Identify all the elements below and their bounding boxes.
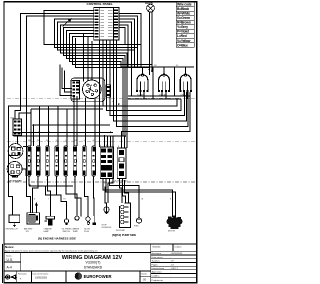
battery starter arrow — [35, 202, 38, 213]
wire F3 bottom — [47, 176, 50, 216]
wire cp pin7 bus5 — [64, 28, 126, 136]
wire cp bottom d2 — [103, 40, 177, 106]
svg-text:EUROPOWER: EUROPOWER — [84, 274, 112, 279]
svg-text:Y=Grey: Y=Grey — [177, 25, 188, 29]
relay K1 — [136, 67, 148, 97]
wire cp pin6 bus4 — [61, 25, 128, 148]
key switch connector bar — [72, 81, 80, 100]
wire K2 leg a — [161, 92, 163, 96]
fuse F3 — [46, 146, 50, 176]
svg-text:[N][P.E] PUMP SIDE: [N][P.E] PUMP SIDE — [112, 233, 136, 237]
wire F1 bottom — [29, 176, 30, 185]
wire left ground run — [8, 106, 103, 215]
key arrow symbol — [63, 19, 72, 27]
wire cp right r1 — [119, 13, 141, 67]
EUROPOWER logo — [75, 272, 112, 279]
wire cp right r3 — [119, 19, 134, 67]
wire pump feed c — [125, 180, 129, 203]
svg-text:SWITCH: SWITCH — [63, 231, 71, 233]
svg-text:GW: GW — [46, 140, 49, 142]
wire lower bus A — [29, 185, 73, 187]
svg-text:TEMP.: TEMP. — [73, 231, 79, 233]
fuse F8 — [92, 146, 96, 176]
wire glowstrip bottom 1 — [120, 179, 123, 203]
wire fusebox top feed2 — [104, 136, 106, 147]
svg-text:R=Brown: R=Brown — [177, 21, 191, 25]
svg-text:O=Blue: O=Blue — [177, 43, 188, 47]
svg-text:Apply only genuine spare parts: Apply only genuine spare parts and acces… — [5, 250, 98, 253]
wire fuse feed f9 — [94, 98, 96, 147]
svg-text:: 20/05/2003: : 20/05/2003 — [170, 253, 183, 255]
wire cp pin1 to bus1 — [44, 10, 141, 44]
svg-text:W=White: W=White — [177, 12, 190, 16]
wire F7 bottom — [84, 176, 88, 217]
wire CN1 top — [19, 113, 31, 119]
wire interrelay stub a — [152, 67, 154, 99]
svg-text:Wire code: Wire code — [177, 3, 192, 7]
svg-text:Revisione: Revisione — [152, 253, 162, 255]
wire lower bus A drop — [45, 186, 61, 195]
svg-text:U.S.: U.S. — [7, 258, 14, 262]
svg-text:Notes:: Notes: — [5, 245, 14, 249]
socket SK2 — [7, 162, 22, 178]
svg-text:SOLENOID: SOLENOID — [102, 227, 112, 229]
controller box — [6, 215, 20, 231]
wire horn drop right — [151, 12, 153, 65]
fuse F4 — [55, 146, 59, 176]
junction dots — [17, 69, 153, 137]
svg-text:INJ.PUMP: INJ.PUMP — [116, 230, 126, 232]
wire cp pin2 long left — [15, 13, 94, 119]
wire fusebox bottom 2 — [106, 179, 175, 217]
wire fuse feed f5 — [66, 109, 68, 146]
svg-text:LAMP: LAMP — [44, 230, 50, 233]
wire K1 leg a — [140, 92, 142, 96]
zone separator dash-dot lines — [7, 98, 196, 182]
wire fusebox top feed3 — [107, 136, 109, 147]
svg-text:L=Red: L=Red — [177, 34, 187, 38]
svg-text:Modello:: Modello: — [153, 246, 162, 248]
wire SK1 top stub — [17, 136, 19, 144]
svg-text:Tavola n.: Tavola n. — [152, 261, 161, 263]
wire keyswitch feed b — [87, 36, 89, 80]
key switch SW1 — [71, 78, 105, 102]
svg-text:Codice:: Codice: — [175, 246, 183, 248]
svg-text:12V SOCKET: 12V SOCKET — [8, 180, 22, 182]
fuel filter T — [44, 216, 55, 233]
wire solenoid drop b — [108, 136, 113, 203]
wire colour code legend table — [176, 2, 194, 47]
wire horn down pair — [149, 12, 152, 75]
fuel solenoid — [102, 207, 112, 229]
relay K3 — [179, 67, 191, 97]
wire horn drop left — [148, 12, 150, 68]
wire cp bottom d4 — [110, 40, 185, 116]
fuse F6 — [73, 146, 77, 176]
svg-text:V3300(T): V3300(T) — [86, 261, 101, 265]
svg-text:L: L — [86, 199, 87, 201]
svg-text:Scala: Scala — [6, 255, 12, 257]
svg-text:+: + — [20, 277, 22, 281]
heater bar — [92, 216, 96, 225]
svg-text:19/05/2003: 19/05/2003 — [35, 277, 48, 280]
wire cp pin5 bus3 — [58, 22, 135, 50]
instrument connector CN1 — [10, 118, 22, 136]
wire K3 leg b — [186, 92, 188, 99]
svg-text:RL: RL — [176, 65, 178, 67]
svg-text:W: W — [93, 180, 95, 182]
first-angle projection symbol — [4, 275, 17, 279]
wire cp pin3 long left — [26, 16, 93, 213]
svg-text:Tavola: Tavola — [141, 273, 148, 275]
wire fusebox bottom 3 — [110, 179, 140, 218]
glow relay strip — [114, 148, 128, 182]
wire cp pin9 bus7 — [70, 33, 122, 67]
wire F4 bottom — [57, 176, 67, 219]
wire fuse feed f8 — [85, 98, 87, 147]
battery BAT — [24, 213, 40, 233]
svg-text:Approvato: Approvato — [152, 271, 163, 274]
svg-text:Codifica: Codifica — [152, 275, 161, 277]
svg-text:G=Green: G=Green — [177, 16, 190, 20]
svg-text:Data emiss.: Data emiss. — [152, 256, 164, 259]
svg-text:GROUND 12V: GROUND 12V — [6, 228, 19, 230]
glow plugs — [84, 217, 90, 233]
wire solenoid drop — [105, 187, 107, 207]
diode block D1 — [106, 85, 111, 97]
wire cp right r5 — [119, 25, 128, 67]
svg-text:Prodotto da: Prodotto da — [152, 279, 164, 282]
wire bus10 horn — [62, 68, 72, 89]
wire fuse feed f4 — [57, 106, 59, 146]
wire mid bus drop a — [32, 125, 34, 146]
water temp sender — [73, 216, 80, 233]
wire F2 bottom — [33, 176, 39, 213]
relay feed bus — [121, 66, 194, 68]
wire F8 bottom — [93, 176, 96, 216]
svg-text:V=Yellow: V=Yellow — [177, 39, 191, 43]
wire mid bus h125 — [33, 124, 110, 126]
svg-text:CONTROL PANEL: CONTROL PANEL — [87, 2, 113, 6]
wire relay return upper — [128, 95, 190, 97]
svg-text:STANDARD: STANDARD — [84, 265, 103, 269]
stop motor sensor — [134, 218, 142, 228]
wire fuse feed f6 — [73, 96, 75, 146]
wire glowstrip bottom 2 — [123, 179, 126, 203]
svg-text:: LIB.TJ: : LIB.TJ — [170, 268, 178, 270]
wire fuse feed f3 — [48, 106, 50, 146]
wire fuse feed f2 — [38, 106, 40, 146]
wire fusebox bottom 1 — [103, 179, 173, 217]
svg-text:RW: RW — [103, 182, 106, 184]
control panel connector CN-CP — [87, 2, 120, 40]
sheet border frame — [3, 2, 197, 283]
svg-text:B=Black: B=Black — [177, 7, 189, 11]
oil pressure switch — [62, 219, 73, 233]
svg-text:Revisione: Revisione — [18, 274, 28, 276]
wire SK1 link — [23, 145, 28, 147]
fuse F2 — [36, 146, 40, 176]
wire K3 leg a — [183, 92, 185, 96]
svg-text:Data di emissione: Data di emissione — [33, 273, 50, 276]
wire keyswitch stub3 — [60, 65, 72, 96]
wire mid bus h132 — [14, 131, 114, 133]
fuse F1 — [27, 146, 31, 176]
title block frame — [4, 244, 197, 283]
wire cp pin8 bus6 — [67, 31, 124, 137]
svg-text:Foglio: Foglio — [152, 264, 159, 266]
svg-text:P=Violet: P=Violet — [177, 30, 190, 34]
wire fusebox top feed4 — [110, 136, 112, 147]
wire cp right r6 — [119, 28, 125, 45]
wire K1 leg b — [143, 92, 145, 99]
svg-text:30: 30 — [99, 145, 101, 147]
wire cp right r4 — [119, 22, 131, 96]
wire relay return lower — [128, 98, 181, 100]
relay K2 — [158, 67, 170, 97]
socket label — [8, 179, 22, 182]
wire main bus h136 — [14, 135, 126, 137]
fuse F7 — [83, 146, 87, 176]
wire F6 bottom — [75, 176, 81, 217]
svg-text:GL: GL — [84, 140, 86, 142]
wire left bus2 — [31, 108, 103, 110]
wire K2 leg b — [165, 92, 167, 99]
wire keyswitch feed a — [83, 33, 85, 81]
svg-text:PLUG: PLUG — [84, 231, 90, 233]
wire fuse feed f7 — [76, 96, 78, 146]
fuse F5 — [64, 146, 68, 176]
wire cp pin4 bus2 — [55, 19, 138, 48]
svg-text:W: W — [37, 180, 39, 182]
svg-text:[N] ENGINE HARNESS SIDE: [N] ENGINE HARNESS SIDE — [38, 237, 76, 241]
wire glowstrip feed3 — [124, 136, 126, 148]
wire glow loop — [122, 92, 191, 148]
wire cp bottom d5 — [114, 40, 187, 121]
wire SK2 link — [22, 169, 26, 176]
wire cp bottom d6 — [116, 40, 188, 127]
title block text — [5, 245, 183, 282]
wire keyswitch stub2 — [64, 71, 72, 92]
wire keyswitch feed c — [91, 41, 93, 80]
fuse box FB1 — [100, 147, 113, 179]
svg-text:LW: LW — [65, 140, 68, 142]
wire cp right r2 — [119, 16, 138, 67]
socket SK1 — [8, 144, 23, 159]
horn H1 — [145, 1, 154, 12]
svg-text:WL: WL — [37, 140, 40, 142]
svg-text:L: L — [65, 180, 66, 182]
wire cp bottom d1 — [99, 40, 101, 147]
wire cp bottom d3 — [106, 40, 181, 111]
wire cp pin10 bus8 — [73, 36, 152, 64]
wire bus9 keyswitch — [76, 38, 150, 68]
svg-text:Distinta base: Distinta base — [152, 267, 165, 270]
svg-text:RW: RW — [130, 65, 133, 67]
wire interrelay stub b — [174, 67, 176, 96]
wire CN1 drop — [16, 136, 18, 144]
wire F5 bottom — [66, 176, 77, 216]
starter motor M1 — [167, 216, 183, 233]
wire code labels — [28, 65, 178, 201]
svg-text:A-4: A-4 — [7, 266, 12, 270]
wire fuse feed f1 — [30, 109, 32, 146]
svg-text:MOTOR: MOTOR — [168, 231, 176, 233]
svg-text:FUEL: FUEL — [134, 226, 139, 228]
fuel pump connector — [116, 203, 131, 232]
svg-text:YW: YW — [120, 182, 123, 184]
